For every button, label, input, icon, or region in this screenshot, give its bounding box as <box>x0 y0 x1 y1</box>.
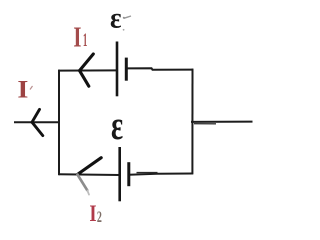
battery E2 short plate <box>127 162 130 186</box>
arrow I1 on top wire <box>80 54 94 86</box>
svg-text:ε: ε <box>111 102 123 149</box>
arrow I2 upper stroke on bottom wire <box>78 158 102 175</box>
wire bottom edge sketch overstroke <box>137 172 158 174</box>
stray dot artifact below label E1 <box>123 29 125 31</box>
wire bottom edge right segment <box>129 174 193 175</box>
wire top edge left segment <box>59 69 117 71</box>
battery E2 long plate <box>118 147 121 201</box>
wire right lead overstroke <box>194 123 216 125</box>
wire left lead <box>14 121 60 123</box>
svg-text:1: 1 <box>83 31 87 51</box>
arrow I on left lead <box>32 109 43 135</box>
wire right vertical edge <box>191 69 193 175</box>
battery E1 long plate <box>116 42 119 97</box>
svg-text:ε: ε <box>110 2 122 35</box>
svg-text:I: I <box>17 75 28 103</box>
battery E1 short plate <box>125 58 128 81</box>
label I faint tick <box>30 86 33 90</box>
wire bottom edge left segment <box>59 173 120 176</box>
wire top edge right segment <box>126 68 193 70</box>
wire right lead <box>191 121 253 123</box>
arrow I2 lower stroke (faded) <box>78 175 88 191</box>
wire left vertical edge <box>58 70 60 176</box>
label EMF E1 faint prime mark <box>124 16 131 18</box>
svg-text:I: I <box>89 200 96 227</box>
arrow I2 lower stroke fade tail <box>87 191 89 195</box>
svg-text:2: 2 <box>97 207 102 225</box>
svg-text:I: I <box>73 22 81 53</box>
